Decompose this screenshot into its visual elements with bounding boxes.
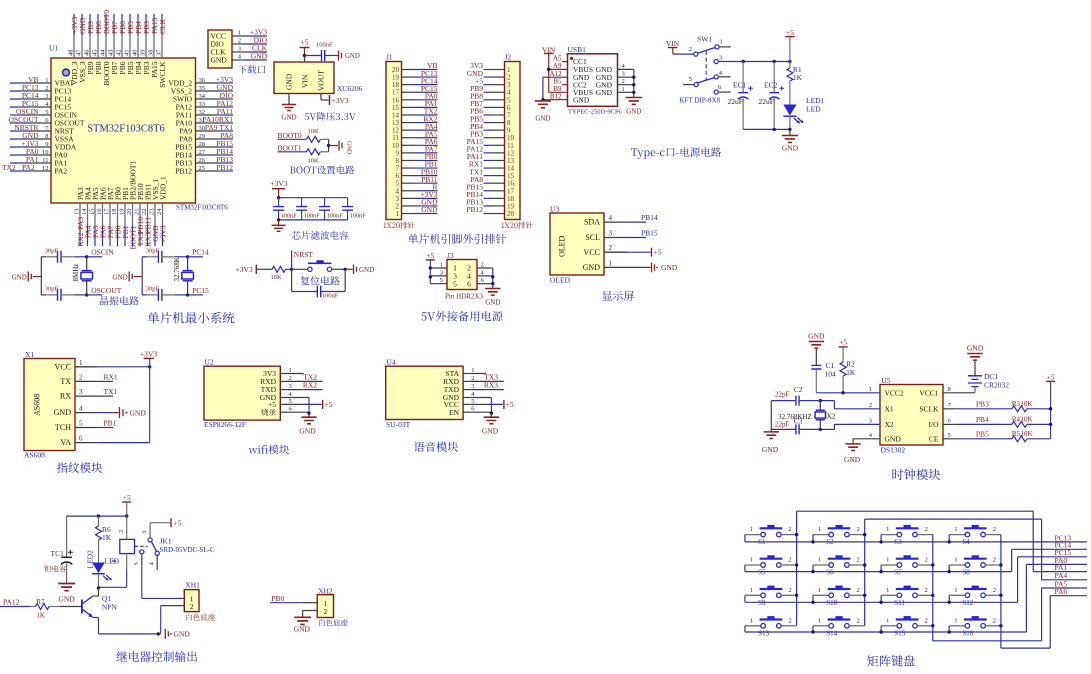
svg-text:VA: VA bbox=[60, 438, 71, 447]
svg-text:1: 1 bbox=[954, 557, 957, 564]
svg-text:BOOT0: BOOT0 bbox=[278, 131, 302, 140]
svg-text:PB0: PB0 bbox=[271, 594, 284, 603]
svg-text:RX3: RX3 bbox=[484, 381, 498, 390]
svg-text:2: 2 bbox=[79, 373, 83, 381]
wire row4 to PA0 bbox=[1026, 564, 1087, 632]
led LED2 bbox=[86, 550, 120, 588]
display U3 body bbox=[550, 213, 604, 275]
svg-text:4: 4 bbox=[609, 214, 613, 222]
wire + pin PB15 U3.3 (SCL) bbox=[585, 229, 658, 243]
wire + pin v33b X1.6 (VA) bbox=[60, 435, 149, 448]
wire bbox=[542, 100, 544, 101]
svg-text:19: 19 bbox=[119, 209, 126, 216]
svg-text:21: 21 bbox=[134, 209, 141, 216]
svg-text:ESP8266-12F: ESP8266-12F bbox=[204, 420, 246, 429]
wire + pin PB8 U1.45 (PB8) bbox=[92, 14, 104, 74]
wire + pin PA5 U1.15 (PA5) bbox=[89, 187, 100, 246]
wire + pin PB14 U1.27 (PB14) bbox=[175, 147, 233, 160]
connector USB1 TYPEC body bbox=[568, 54, 618, 107]
pushbutton S2 bbox=[813, 525, 865, 546]
svg-text:2: 2 bbox=[118, 530, 125, 533]
junction bbox=[429, 266, 432, 269]
wire + pin +3V3 download-port.1 (VCC) bbox=[211, 28, 268, 41]
svg-text:XH1: XH1 bbox=[185, 581, 200, 590]
ground bbox=[782, 136, 799, 153]
wire + pin RX1 J2.14 bbox=[469, 160, 515, 173]
svg-text:GND: GND bbox=[808, 331, 825, 340]
wire bbox=[820, 428, 834, 430]
pin number U5.6 bbox=[948, 417, 952, 424]
wire bbox=[789, 129, 791, 135]
svg-text:GND: GND bbox=[251, 52, 268, 61]
svg-text:17: 17 bbox=[104, 208, 111, 215]
svg-text:100nF: 100nF bbox=[322, 293, 339, 300]
wire VIN-VBUS bbox=[548, 54, 550, 93]
wire + pin PB3 J2.10 bbox=[470, 129, 514, 142]
pushbutton S5 bbox=[745, 555, 797, 576]
wire + pin U2.2 (RXD) bbox=[260, 372, 322, 386]
wire top rail bbox=[67, 515, 127, 517]
pin number U5.1 bbox=[869, 386, 872, 393]
svg-text:5: 5 bbox=[440, 277, 443, 284]
svg-text:STM32F103C8T6: STM32F103C8T6 bbox=[87, 124, 165, 135]
svg-text:1K: 1K bbox=[36, 612, 45, 620]
wire bottom rail bbox=[279, 219, 348, 221]
wire bbox=[278, 220, 280, 225]
junction bbox=[547, 68, 550, 71]
junction bbox=[125, 514, 128, 517]
wire bbox=[329, 145, 338, 147]
svg-text:3: 3 bbox=[45, 93, 48, 100]
svg-text:SDA: SDA bbox=[584, 218, 600, 227]
svg-text:1: 1 bbox=[886, 617, 889, 624]
svg-text:10: 10 bbox=[42, 149, 49, 156]
wire + pin PA1 U1.11 (PA1) bbox=[10, 155, 67, 168]
net label PA12 + wire bbox=[0, 598, 36, 607]
junction bbox=[290, 268, 293, 271]
pin name SCLK U5 bbox=[919, 404, 939, 413]
svg-text:PC15: PC15 bbox=[192, 286, 209, 295]
svg-text:1: 1 bbox=[818, 557, 821, 564]
pushbutton S6 bbox=[813, 555, 865, 576]
wire + pin PB15 J2.17 bbox=[466, 182, 514, 195]
wire + resistor R5 10K (PB5) bbox=[943, 430, 1051, 442]
wire + pin PB7 J2.6 bbox=[470, 99, 511, 112]
svg-text:48: 48 bbox=[68, 50, 75, 57]
wire + pin PB10 J1.6 bbox=[396, 167, 438, 180]
title BOOT设置电路 bbox=[290, 167, 295, 174]
svg-text:S8: S8 bbox=[962, 569, 970, 577]
svg-text:PA6: PA6 bbox=[1055, 587, 1068, 596]
svg-text:18: 18 bbox=[111, 209, 118, 216]
wire bbox=[286, 268, 292, 270]
wire column 1 bbox=[795, 511, 798, 626]
wire + pins J3 row 5-6 bbox=[430, 277, 493, 288]
pushbutton S14 bbox=[813, 616, 865, 637]
wire + pin PB14 U3.4 (SDA) bbox=[584, 213, 658, 227]
svg-text:R3: R3 bbox=[1012, 400, 1021, 408]
svg-text:2: 2 bbox=[689, 46, 692, 53]
svg-text:2: 2 bbox=[481, 262, 484, 269]
wire + pin PB13 U1.26 (PB13) bbox=[175, 155, 233, 168]
wire + pin PA12 J2.12 bbox=[467, 145, 515, 158]
pin CC2 USB1.B5 bbox=[553, 77, 587, 89]
ground bbox=[281, 105, 296, 122]
svg-text:+5: +5 bbox=[324, 400, 332, 409]
svg-text:37: 37 bbox=[156, 49, 163, 56]
power port GND bbox=[165, 629, 190, 639]
svg-text:OSCOUT: OSCOUT bbox=[91, 286, 121, 295]
svg-text:GND: GND bbox=[421, 205, 438, 214]
pin GND USB1.B12 bbox=[550, 92, 590, 104]
svg-text:1: 1 bbox=[750, 617, 753, 624]
wire row 1 bbox=[745, 535, 1087, 544]
wire + pin PA10RX1 U1.31 (PA10) bbox=[176, 115, 234, 128]
svg-text:GND: GND bbox=[661, 263, 678, 272]
title 复位电路 bbox=[301, 276, 310, 285]
svg-text:2: 2 bbox=[857, 526, 860, 533]
svg-text:1: 1 bbox=[622, 86, 625, 93]
pushbutton S7 bbox=[881, 555, 933, 576]
module X1 AS608 body bbox=[24, 359, 75, 451]
title 下载口 bbox=[238, 65, 247, 73]
svg-text:TYPEC-250D-9CP6: TYPEC-250D-9CP6 bbox=[568, 109, 623, 116]
wire + pin PB9 U1.46 (PB9) bbox=[84, 14, 96, 74]
power port +5 bbox=[300, 38, 310, 56]
pin number U5.7 bbox=[948, 402, 952, 409]
wire + pin BOOT0 U1.44 (BOOT0) bbox=[100, 10, 112, 86]
wire + pin +3V3 U1.9 (VDDA) bbox=[10, 139, 77, 152]
net label PB0 + wire + pin XH2.1 bbox=[270, 594, 328, 608]
svg-text:2: 2 bbox=[857, 587, 860, 594]
wire col2 to PA4 bbox=[865, 519, 1087, 580]
svg-text:22: 22 bbox=[141, 209, 148, 216]
wire + pin PB3 U1.39 (PB3) bbox=[140, 14, 152, 74]
svg-text:24: 24 bbox=[156, 208, 163, 215]
wire + pin PA1 J1.15 bbox=[392, 99, 438, 112]
wire + pin PC15 U1.4 (PC15) bbox=[10, 99, 71, 112]
title 继电器控制输出 bbox=[116, 651, 127, 662]
svg-text:1: 1 bbox=[720, 39, 723, 46]
wire column 2 bbox=[863, 519, 866, 626]
svg-text:SCL: SCL bbox=[585, 233, 600, 242]
wire + pin PB0 U1.18 (PB0) bbox=[111, 187, 122, 246]
wire top rail bbox=[279, 197, 348, 199]
capacitor 100nF C3 bbox=[319, 198, 343, 220]
wire bbox=[328, 139, 330, 145]
power port GND bbox=[354, 265, 375, 275]
junction bbox=[491, 282, 494, 285]
svg-text:12: 12 bbox=[42, 165, 49, 172]
wire + pin PB1 U1.19 (PB1) bbox=[119, 187, 130, 246]
svg-text:C3: C3 bbox=[794, 417, 803, 426]
wire + resistor R4 10K (PB4) bbox=[943, 415, 1052, 427]
wire + pin PA7 U1.17 (PA7) bbox=[104, 187, 115, 246]
svg-text:OLED: OLED bbox=[558, 235, 567, 257]
svg-text:1: 1 bbox=[79, 359, 83, 367]
wire + pin PA11 J2.13 bbox=[467, 152, 515, 165]
wire + pin PA9 TX1 U1.30 (PA9) bbox=[179, 123, 233, 136]
junction bbox=[788, 60, 791, 63]
wire col3 to PA5 bbox=[933, 588, 1087, 641]
power port +5 bbox=[426, 251, 435, 284]
svg-text:X1: X1 bbox=[25, 350, 34, 359]
svg-text:35: 35 bbox=[199, 85, 206, 92]
pin number U5.8 bbox=[948, 386, 951, 393]
pushbutton S11 bbox=[881, 586, 933, 607]
wire + pin PB5 U1.41 (PB5) bbox=[124, 14, 136, 74]
svg-text:10K: 10K bbox=[1021, 400, 1033, 408]
svg-text:100nF: 100nF bbox=[327, 212, 344, 219]
wire right vertical bbox=[492, 268, 494, 289]
wire + pin U2.1 (3V3) bbox=[263, 367, 304, 378]
svg-text:STM32F103C8T6: STM32F103C8T6 bbox=[176, 204, 228, 212]
wire + pin PB11 J1.5 bbox=[396, 175, 438, 188]
svg-text:+5: +5 bbox=[426, 251, 434, 260]
switch SW1 contact 6 bbox=[714, 84, 731, 94]
relay contact 5 bbox=[133, 550, 185, 599]
pin VOUT lead bbox=[321, 94, 329, 101]
svg-text:29: 29 bbox=[199, 133, 206, 140]
wire row 2 bbox=[745, 565, 1012, 573]
svg-text:PC14: PC14 bbox=[192, 248, 209, 257]
svg-text:GND: GND bbox=[299, 427, 316, 436]
wire + pin USB1.3 bbox=[618, 71, 634, 78]
pin number U5.5 bbox=[948, 432, 951, 439]
wire + pin PA8 J2.16 bbox=[470, 175, 514, 188]
pushbutton S8 bbox=[949, 555, 1001, 576]
wire bbox=[345, 268, 352, 270]
wire + pin GND U1.47 (VSS_3) bbox=[76, 14, 88, 83]
wire + pin DIO download-port.2 (DIO) bbox=[211, 36, 268, 49]
connector J2 1X20 body bbox=[505, 62, 521, 220]
wire + pin PC14 U1.3 (PC14) bbox=[10, 91, 71, 104]
wire + pin RX1 X1.2 (TX) bbox=[60, 372, 118, 386]
svg-text:GND: GND bbox=[596, 88, 613, 97]
wire column 3 bbox=[931, 535, 934, 641]
svg-text:8: 8 bbox=[45, 133, 48, 140]
svg-text:J1: J1 bbox=[386, 53, 393, 62]
pushbutton S4 bbox=[949, 525, 1001, 546]
svg-text:100nF: 100nF bbox=[350, 212, 367, 219]
svg-text:SCLK: SCLK bbox=[919, 404, 939, 413]
svg-text:SWCLK: SWCLK bbox=[158, 61, 167, 88]
module U5 DS1302 body bbox=[880, 385, 943, 446]
title 矩阵键盘 bbox=[867, 655, 878, 666]
wire bbox=[673, 53, 694, 55]
svg-text:GND: GND bbox=[482, 427, 499, 436]
svg-text:U2: U2 bbox=[205, 358, 214, 367]
ground (C1 top) bbox=[808, 331, 825, 365]
power port +3V3 bbox=[270, 179, 287, 198]
wire + pin PC15 J1.17 bbox=[392, 84, 438, 97]
wire + pin PC14 J1.18 bbox=[392, 76, 438, 89]
svg-text:TX1: TX1 bbox=[104, 387, 118, 396]
wire + pin PB5 J2.8 bbox=[470, 114, 511, 127]
pin number U5.2 bbox=[869, 402, 872, 409]
svg-text:J3: J3 bbox=[447, 251, 454, 260]
switch SW1 contact 3 bbox=[714, 55, 727, 64]
wire + pin +3V3 J1.3 bbox=[396, 190, 438, 203]
power port VIN bbox=[542, 46, 556, 55]
svg-text:1: 1 bbox=[750, 587, 753, 594]
svg-text:8MHz: 8MHz bbox=[72, 264, 80, 282]
svg-text:+5: +5 bbox=[268, 400, 276, 409]
title 显示屏 bbox=[602, 291, 612, 300]
wire col4 to PA6 bbox=[1001, 596, 1087, 648]
svg-text:2: 2 bbox=[993, 617, 996, 624]
svg-text:GND: GND bbox=[281, 114, 296, 122]
relay contact 3 bbox=[141, 523, 152, 542]
svg-text:VCC: VCC bbox=[584, 248, 600, 257]
net label BOOT0 + wire bbox=[278, 131, 307, 140]
junction bbox=[841, 391, 844, 394]
wire + pin XH1.2 bbox=[158, 602, 193, 634]
power port +3V3 bbox=[236, 265, 257, 275]
svg-text:PA2: PA2 bbox=[55, 167, 68, 176]
wire bbox=[256, 268, 272, 270]
wire + pin PB1 X1.5 (TCH) bbox=[55, 419, 117, 433]
svg-text:S16: S16 bbox=[962, 629, 973, 637]
svg-text:VCC2: VCC2 bbox=[885, 388, 904, 397]
wire + pin PA0 U1.10 (PA0) bbox=[10, 147, 67, 160]
junction bbox=[344, 268, 347, 271]
svg-text:GND: GND bbox=[583, 263, 601, 272]
led LED1 bbox=[783, 96, 824, 129]
svg-text:PB14: PB14 bbox=[641, 213, 658, 222]
svg-text:10K: 10K bbox=[1021, 415, 1033, 423]
svg-text:+5: +5 bbox=[123, 493, 131, 502]
svg-text:LED: LED bbox=[806, 105, 821, 114]
svg-text:VCC1: VCC1 bbox=[919, 388, 938, 397]
svg-text:+5: +5 bbox=[174, 519, 182, 528]
junction bbox=[819, 428, 822, 431]
svg-text:2: 2 bbox=[238, 38, 241, 45]
svg-text:PA12: PA12 bbox=[3, 598, 20, 607]
pin GND (right col) bbox=[596, 88, 613, 97]
svg-text:RX: RX bbox=[60, 392, 71, 401]
power port +5 (contact) bbox=[150, 518, 182, 527]
svg-text:22uF: 22uF bbox=[728, 97, 743, 106]
connector XH1 body bbox=[184, 590, 199, 612]
svg-text:PB15: PB15 bbox=[641, 229, 658, 238]
svg-text:DS1302: DS1302 bbox=[881, 446, 906, 455]
svg-text:VOUT: VOUT bbox=[317, 70, 326, 91]
svg-text:1: 1 bbox=[818, 587, 821, 594]
wire VCC2 row bbox=[816, 392, 880, 394]
svg-text:5: 5 bbox=[133, 562, 140, 565]
pin GND wire + ground (U5) bbox=[844, 439, 880, 464]
mcu U1 pin-1 indicator bbox=[63, 69, 70, 76]
svg-text:6: 6 bbox=[79, 435, 83, 443]
wire + pin NRSTR U1.7 (NRST) bbox=[10, 123, 74, 136]
svg-text:2: 2 bbox=[993, 557, 996, 564]
svg-text:1: 1 bbox=[869, 386, 872, 393]
relay contact 4 bbox=[149, 551, 160, 570]
resistor R6 1K bbox=[96, 516, 112, 562]
wire col1 to PA1 bbox=[797, 511, 1087, 571]
svg-text:+3V3: +3V3 bbox=[140, 350, 157, 359]
wire + pin GND U3.1 (GND) bbox=[583, 259, 678, 272]
wire + pins J3 row 1-2 bbox=[430, 262, 493, 273]
svg-text:1: 1 bbox=[750, 557, 753, 564]
svg-text:GND: GND bbox=[626, 108, 641, 116]
wire + pin PA4 U1.14 (PA4) bbox=[81, 187, 92, 246]
relay JK1 coil bbox=[99, 516, 135, 587]
pushbutton S16 bbox=[949, 616, 1001, 637]
wire + pin 3V3 J2.1 bbox=[470, 61, 511, 74]
svg-text:GND: GND bbox=[211, 56, 228, 65]
svg-text:26: 26 bbox=[199, 157, 206, 164]
wire + pin PB4 J2.9 bbox=[470, 122, 511, 135]
wire + pin U4.3 (TXD) bbox=[444, 381, 504, 395]
svg-text:BOOT1: BOOT1 bbox=[278, 143, 302, 152]
junction bbox=[541, 98, 544, 101]
svg-text:25: 25 bbox=[199, 165, 206, 172]
svg-text:41: 41 bbox=[124, 50, 131, 57]
wire + pin GND X1.4 (GND) bbox=[54, 405, 147, 419]
svg-text:+3V3: +3V3 bbox=[158, 225, 167, 242]
svg-text:GND: GND bbox=[294, 625, 311, 634]
wire + pin PB12 U1.25 (PB12) bbox=[175, 163, 233, 176]
wire bbox=[325, 55, 338, 57]
svg-text:+3V3: +3V3 bbox=[332, 96, 349, 105]
svg-text:10K: 10K bbox=[1021, 430, 1033, 438]
power port +3V3 bbox=[140, 350, 157, 443]
svg-text:A5: A5 bbox=[553, 54, 562, 62]
wire bbox=[305, 55, 322, 57]
crystal circuit 32.768K bbox=[113, 247, 209, 301]
svg-text:U5: U5 bbox=[881, 376, 890, 385]
svg-text:GND: GND bbox=[54, 408, 72, 417]
wire + pin U4.6 (EN) bbox=[449, 406, 499, 436]
svg-text:TX2: TX2 bbox=[2, 163, 16, 172]
svg-text:3: 3 bbox=[440, 269, 443, 276]
wire + pin VB J1.20 bbox=[392, 61, 438, 74]
svg-text:GND: GND bbox=[485, 299, 500, 307]
pushbutton S13 bbox=[745, 616, 797, 637]
svg-text:2: 2 bbox=[925, 557, 928, 564]
wire + pin v33 X1.1 (VCC) bbox=[55, 359, 152, 372]
title Type-c口-电源电路 bbox=[631, 148, 637, 156]
wire bbox=[834, 408, 880, 410]
wire + pin USB1.4 bbox=[618, 63, 634, 70]
wire + pin PB12 J2.20 bbox=[466, 205, 514, 218]
svg-text:1: 1 bbox=[440, 262, 443, 269]
svg-text:1: 1 bbox=[954, 587, 957, 594]
svg-text:44: 44 bbox=[100, 49, 107, 56]
title 芯片滤波电容 bbox=[292, 231, 301, 239]
ground (USB right) bbox=[626, 98, 642, 116]
svg-text:10K: 10K bbox=[271, 274, 283, 281]
battery DC1 CR2032 bbox=[968, 372, 1009, 393]
wire + pin PA6 U1.16 (PA6) bbox=[96, 187, 107, 246]
pushbutton S3 bbox=[881, 525, 933, 546]
svg-text:I/O: I/O bbox=[929, 420, 940, 429]
svg-text:EN: EN bbox=[449, 408, 460, 417]
svg-text:U3: U3 bbox=[550, 205, 559, 214]
svg-text:OLED: OLED bbox=[550, 276, 571, 285]
wire bbox=[549, 68, 568, 70]
wire + pin PB6 U1.42 (PB6) bbox=[116, 14, 128, 74]
svg-text:NPN: NPN bbox=[102, 603, 118, 612]
svg-text:30pF: 30pF bbox=[146, 247, 160, 254]
svg-text:X2: X2 bbox=[827, 412, 836, 421]
svg-text:S14: S14 bbox=[826, 629, 837, 637]
title 5V外接备用电源 bbox=[421, 312, 426, 320]
svg-text:20: 20 bbox=[126, 209, 133, 216]
svg-text:32.768K: 32.768K bbox=[173, 257, 181, 281]
